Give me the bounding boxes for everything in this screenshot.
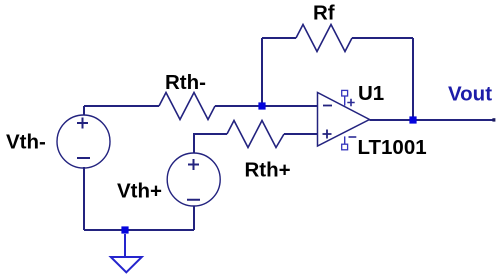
voltage source Vth- [57,115,110,168]
wire Vth+ bottom vertical [193,206,195,230]
resistor Rf [296,25,352,52]
wire feedback left vertical [261,38,263,106]
wire inverting input horizontal right segment [215,105,317,107]
wire output [370,119,496,121]
svg-text:Rth-: Rth- [165,71,206,94]
voltage source Vth+ [167,153,220,206]
wire inverting input horizontal left segment [84,105,159,107]
svg-text:Vout: Vout [448,83,492,106]
node C ground junction [121,226,128,233]
svg-text:Vth-: Vth- [6,131,46,154]
svg-text:U1: U1 [358,82,384,105]
op-amp U1 [318,90,370,149]
wire ground stem [124,234,126,257]
svg-text:Rth+: Rth+ [245,159,291,182]
wire Vth- bottom vertical [83,167,85,230]
node B output junction [409,116,416,123]
wire feedback right vertical [412,38,414,120]
wire Vth+ to Rth+ corner [194,134,227,153]
node A inverting junction [258,102,265,109]
wire ground bus [84,229,194,231]
svg-text:Vth+: Vth+ [117,180,162,203]
resistor Rth- [159,93,215,120]
wire noninverting input segment [284,133,317,135]
svg-text:LT1001: LT1001 [358,136,427,159]
wire Vth- top corner [83,106,85,115]
svg-text:Rf: Rf [313,2,335,25]
node output port tip [492,118,495,121]
ground [111,257,142,272]
wire feedback top left segment [262,37,296,39]
resistor Rth+ [227,121,284,148]
wire feedback top right segment [352,37,413,39]
